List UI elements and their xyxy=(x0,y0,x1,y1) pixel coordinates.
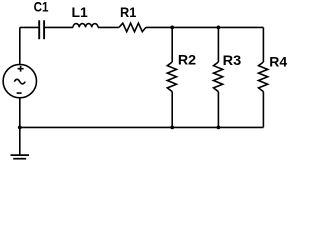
wire: R3 branch bottom xyxy=(217,92,219,128)
resistor R2 xyxy=(167,62,176,92)
svg-text:R3: R3 xyxy=(223,52,242,68)
resistor R1 xyxy=(119,23,146,32)
wire: left vertical from corner down to source xyxy=(19,27,21,64)
resistor R3 xyxy=(214,62,223,92)
wire bottom rail xyxy=(20,126,264,128)
node: R3 bottom junction xyxy=(217,126,221,130)
wire top rail: R1 to top-right corner xyxy=(146,26,264,28)
wire: C1 to L1 xyxy=(45,26,73,28)
wire: R3 branch top xyxy=(217,27,219,62)
capacitor C1 xyxy=(39,20,44,39)
node: R2 top junction xyxy=(170,26,174,30)
node: source/bottom-rail junction xyxy=(18,126,22,130)
ground xyxy=(11,155,30,159)
wire: R2 branch top xyxy=(171,27,173,62)
inductor L1 xyxy=(73,24,98,28)
wire: source bottom to ground xyxy=(19,98,21,155)
svg-text:R1: R1 xyxy=(120,4,137,20)
svg-text:R2: R2 xyxy=(178,52,196,68)
node: R2 bottom junction xyxy=(170,126,174,130)
svg-text:L1: L1 xyxy=(72,4,89,20)
AC voltage source xyxy=(3,64,36,97)
wire: R2 branch bottom xyxy=(171,92,173,128)
wire: R4 branch bottom xyxy=(262,92,264,128)
svg-text:C1: C1 xyxy=(34,0,49,15)
node: R3 top junction xyxy=(217,26,221,30)
wire: R4 branch top xyxy=(262,27,264,62)
wire top rail: left corner to C1 xyxy=(20,26,39,28)
svg-text:R4: R4 xyxy=(269,54,287,70)
resistor R4 xyxy=(259,62,268,92)
wire: L1 to R1 xyxy=(98,26,119,28)
